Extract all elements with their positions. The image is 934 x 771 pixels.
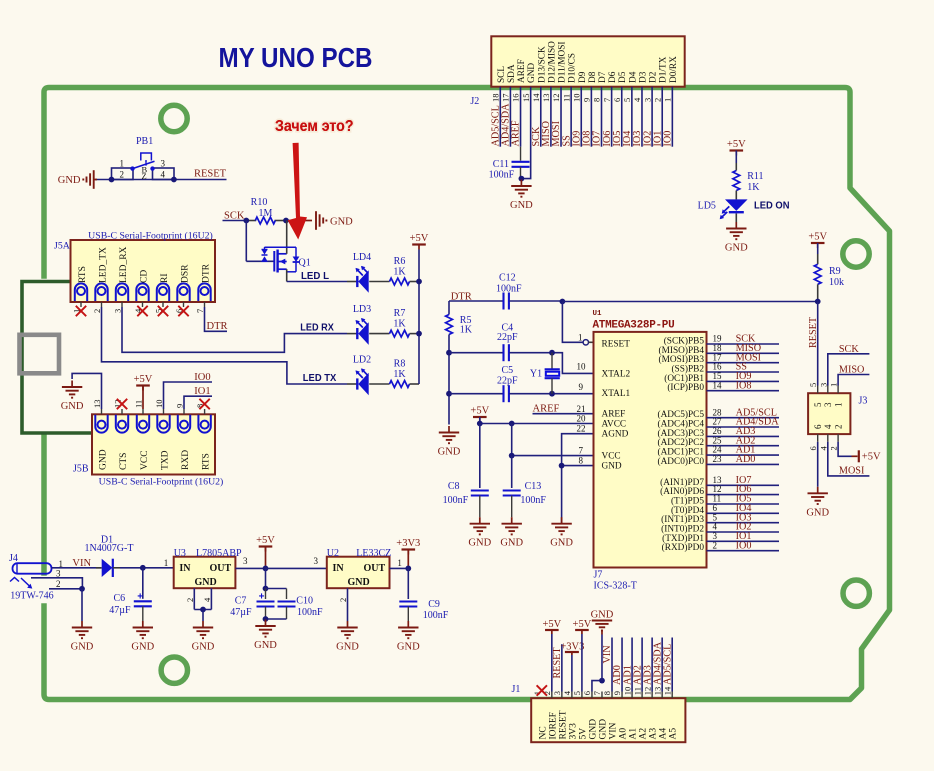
svg-text:GND: GND xyxy=(588,719,598,740)
svg-text:+5V: +5V xyxy=(256,535,275,546)
svg-text:GND: GND xyxy=(591,610,614,621)
svg-text:7: 7 xyxy=(579,446,584,456)
svg-text:D5: D5 xyxy=(618,71,628,83)
svg-text:100nF: 100nF xyxy=(520,495,546,506)
svg-text:CTS: CTS xyxy=(119,453,129,470)
svg-text:C11: C11 xyxy=(493,159,509,170)
svg-text:18: 18 xyxy=(491,94,501,103)
svg-text:10: 10 xyxy=(577,362,587,372)
svg-text:19TW-746: 19TW-746 xyxy=(10,591,53,602)
svg-text:1K: 1K xyxy=(393,319,406,330)
svg-text:C13: C13 xyxy=(525,481,542,492)
svg-text:U2: U2 xyxy=(327,548,339,559)
svg-text:9: 9 xyxy=(612,691,622,695)
svg-text:3V3: 3V3 xyxy=(568,723,578,740)
svg-text:RESET: RESET xyxy=(558,710,568,739)
svg-text:10: 10 xyxy=(571,94,581,103)
svg-text:3: 3 xyxy=(823,402,833,407)
svg-text:MY UNO PCB: MY UNO PCB xyxy=(219,42,373,73)
svg-text:23: 23 xyxy=(713,454,723,464)
svg-text:GND: GND xyxy=(131,642,154,653)
svg-text:13: 13 xyxy=(92,400,102,409)
svg-text:MISO: MISO xyxy=(839,364,864,375)
svg-text:GND: GND xyxy=(602,462,622,472)
svg-text:U3: U3 xyxy=(174,548,186,559)
svg-text:1M: 1M xyxy=(259,208,273,219)
svg-text:D9: D9 xyxy=(578,71,588,83)
svg-text:+5V: +5V xyxy=(573,619,592,630)
svg-text:2: 2 xyxy=(120,170,125,180)
svg-text:Зачем это?: Зачем это? xyxy=(275,118,354,135)
svg-text:47µF: 47µF xyxy=(109,605,131,616)
svg-text:1N4007G-T: 1N4007G-T xyxy=(85,543,134,554)
svg-text:VIN: VIN xyxy=(602,645,613,664)
svg-text:D2: D2 xyxy=(649,71,659,83)
svg-text:100nF: 100nF xyxy=(489,170,515,181)
svg-text:+: + xyxy=(137,591,143,602)
svg-text:C8: C8 xyxy=(448,481,460,492)
svg-text:(AIN0)PD6: (AIN0)PD6 xyxy=(660,486,704,497)
svg-text:IO0: IO0 xyxy=(736,540,752,551)
svg-text:12: 12 xyxy=(551,94,561,103)
svg-text:GND: GND xyxy=(397,642,420,653)
svg-text:1: 1 xyxy=(397,558,402,568)
svg-text:LED_RX: LED_RX xyxy=(119,246,129,283)
svg-text:22: 22 xyxy=(577,424,586,434)
svg-text:RESET: RESET xyxy=(808,316,819,348)
svg-text:SCL: SCL xyxy=(497,66,507,83)
svg-text:IOREF: IOREF xyxy=(548,712,558,739)
svg-text:C9: C9 xyxy=(428,599,440,610)
svg-text:NC: NC xyxy=(538,726,548,739)
svg-text:+5V: +5V xyxy=(410,233,429,244)
svg-text:3: 3 xyxy=(243,556,248,566)
svg-text:LED_TX: LED_TX xyxy=(98,247,108,283)
svg-text:J5B: J5B xyxy=(73,464,89,475)
svg-text:(SS)PB2: (SS)PB2 xyxy=(671,364,704,375)
svg-text:14: 14 xyxy=(662,686,672,695)
svg-text:+3V3: +3V3 xyxy=(396,538,420,549)
svg-text:+5V: +5V xyxy=(862,452,881,463)
svg-text:21: 21 xyxy=(577,404,586,414)
svg-text:D11/MOSI: D11/MOSI xyxy=(558,42,568,84)
svg-text:AVCC: AVCC xyxy=(602,420,627,430)
svg-text:3: 3 xyxy=(818,383,828,387)
svg-text:+5V: +5V xyxy=(470,406,489,417)
svg-text:22pF: 22pF xyxy=(497,332,518,343)
svg-text:R6: R6 xyxy=(394,256,406,267)
svg-text:(T0)PD4: (T0)PD4 xyxy=(671,505,704,516)
svg-text:10: 10 xyxy=(622,687,632,696)
svg-text:(MISO)PB4: (MISO)PB4 xyxy=(659,345,705,356)
svg-text:3: 3 xyxy=(552,691,562,695)
svg-text:GND: GND xyxy=(58,175,81,186)
svg-text:J2: J2 xyxy=(470,96,479,107)
svg-text:2: 2 xyxy=(833,425,843,430)
svg-text:2: 2 xyxy=(56,579,61,589)
svg-text:A4: A4 xyxy=(659,728,669,740)
svg-text:+5V: +5V xyxy=(542,619,561,630)
svg-text:4: 4 xyxy=(632,97,642,102)
svg-text:IO0: IO0 xyxy=(194,372,210,383)
svg-text:(TXD)PD1: (TXD)PD1 xyxy=(662,533,704,544)
svg-text:ATMEGA328P-PU: ATMEGA328P-PU xyxy=(593,320,675,332)
svg-text:14: 14 xyxy=(713,380,723,390)
svg-text:100nF: 100nF xyxy=(443,495,469,506)
svg-text:1: 1 xyxy=(164,558,169,568)
svg-text:16: 16 xyxy=(511,94,521,103)
svg-text:8: 8 xyxy=(592,98,602,102)
svg-text:2: 2 xyxy=(92,309,102,313)
svg-text:J5A: J5A xyxy=(54,241,70,252)
svg-text:GND: GND xyxy=(806,507,829,518)
svg-text:D1/TX: D1/TX xyxy=(659,56,669,83)
svg-text:D8: D8 xyxy=(588,71,598,83)
svg-text:Y1: Y1 xyxy=(530,368,542,379)
svg-text:47µF: 47µF xyxy=(230,607,252,618)
svg-text:7: 7 xyxy=(592,691,602,695)
svg-text:D13/SCK: D13/SCK xyxy=(537,46,547,83)
svg-text:+5V: +5V xyxy=(808,232,827,243)
svg-text:2: 2 xyxy=(338,598,348,602)
svg-text:4: 4 xyxy=(562,690,572,695)
svg-text:+5V: +5V xyxy=(134,374,153,385)
svg-text:VCC: VCC xyxy=(602,452,621,462)
svg-text:ICS-328-T: ICS-328-T xyxy=(594,581,637,592)
svg-text:RI: RI xyxy=(160,274,170,284)
svg-text:9: 9 xyxy=(582,98,592,102)
svg-text:GND: GND xyxy=(725,243,748,254)
svg-text:GND: GND xyxy=(598,719,608,740)
svg-text:17: 17 xyxy=(501,94,511,103)
svg-text:U1: U1 xyxy=(593,310,603,318)
svg-text:J4: J4 xyxy=(9,553,18,564)
svg-text:1: 1 xyxy=(663,98,673,102)
svg-text:2: 2 xyxy=(829,446,839,450)
svg-text:R11: R11 xyxy=(747,171,763,182)
svg-text:1: 1 xyxy=(833,403,843,408)
svg-text:DTR: DTR xyxy=(201,263,211,283)
svg-text:D10/CS: D10/CS xyxy=(568,53,578,83)
svg-text:1K: 1K xyxy=(393,369,406,380)
svg-text:XTAL1: XTAL1 xyxy=(602,389,631,399)
svg-text:OUT: OUT xyxy=(210,563,232,574)
svg-text:14: 14 xyxy=(531,93,541,102)
svg-text:GND: GND xyxy=(500,538,523,549)
svg-text:GND: GND xyxy=(192,642,215,653)
svg-text:10k: 10k xyxy=(829,277,844,288)
svg-text:A1: A1 xyxy=(629,728,639,740)
svg-text:7: 7 xyxy=(602,98,612,102)
svg-text:GND: GND xyxy=(71,642,94,653)
svg-text:VCC: VCC xyxy=(140,450,150,470)
svg-text:5: 5 xyxy=(572,691,582,695)
svg-text:RTS: RTS xyxy=(201,453,211,470)
svg-text:9: 9 xyxy=(579,382,584,392)
svg-text:22pF: 22pF xyxy=(497,376,518,387)
svg-text:5: 5 xyxy=(808,383,818,387)
svg-text:IO1: IO1 xyxy=(194,386,210,397)
svg-text:1: 1 xyxy=(578,333,583,343)
svg-text:C10: C10 xyxy=(296,596,313,607)
svg-text:D0/RX: D0/RX xyxy=(669,56,679,83)
svg-text:3: 3 xyxy=(161,159,166,169)
svg-text:4: 4 xyxy=(161,170,166,180)
svg-text:7: 7 xyxy=(195,309,205,313)
svg-text:D7: D7 xyxy=(598,71,608,83)
svg-text:AREF: AREF xyxy=(517,59,527,83)
svg-text:J3: J3 xyxy=(859,396,868,407)
svg-text:J1: J1 xyxy=(512,684,521,695)
svg-text:(ADC2)PC2: (ADC2)PC2 xyxy=(658,437,705,448)
svg-text:GND: GND xyxy=(98,449,108,470)
svg-text:100nF: 100nF xyxy=(423,610,449,621)
svg-text:GND: GND xyxy=(550,538,573,549)
svg-text:C6: C6 xyxy=(114,593,126,604)
svg-text:LE33CZ: LE33CZ xyxy=(356,548,391,559)
svg-text:A3: A3 xyxy=(649,728,659,740)
svg-text:3: 3 xyxy=(113,309,123,313)
svg-text:LD3: LD3 xyxy=(353,304,371,315)
svg-text:GND: GND xyxy=(438,447,461,458)
svg-text:CD: CD xyxy=(139,270,149,283)
svg-text:RXD: RXD xyxy=(181,450,191,470)
svg-text:LED TX: LED TX xyxy=(303,372,337,384)
svg-text:11: 11 xyxy=(134,400,144,408)
svg-text:L7805ABP: L7805ABP xyxy=(196,548,242,559)
svg-text:4: 4 xyxy=(818,446,828,451)
svg-text:RESET: RESET xyxy=(194,169,227,180)
svg-text:VIN: VIN xyxy=(609,722,619,739)
svg-text:+: + xyxy=(259,591,265,602)
svg-text:J7: J7 xyxy=(594,570,603,581)
svg-text:20: 20 xyxy=(577,414,587,424)
svg-text:SDA: SDA xyxy=(507,64,517,83)
svg-text:(ICP)PB0: (ICP)PB0 xyxy=(667,382,704,393)
svg-text:GND: GND xyxy=(336,642,359,653)
svg-text:XTAL2: XTAL2 xyxy=(602,369,631,379)
svg-text:AREF: AREF xyxy=(533,404,560,415)
svg-text:RTS: RTS xyxy=(78,266,88,283)
svg-text:GND: GND xyxy=(254,640,277,651)
svg-text:5V: 5V xyxy=(578,728,588,740)
svg-text:Z: Z xyxy=(142,171,147,181)
svg-text:LED RX: LED RX xyxy=(300,322,334,334)
svg-text:USB-C Serial-Footprint (16U2): USB-C Serial-Footprint (16U2) xyxy=(88,231,213,242)
svg-text:8: 8 xyxy=(602,691,612,695)
svg-text:OUT: OUT xyxy=(364,563,386,574)
svg-text:D12/MISO: D12/MISO xyxy=(547,41,557,83)
svg-text:A0: A0 xyxy=(619,728,629,740)
svg-text:8: 8 xyxy=(579,456,584,466)
svg-text:IO0: IO0 xyxy=(663,131,674,147)
svg-text:100nF: 100nF xyxy=(496,284,522,295)
svg-text:PB1: PB1 xyxy=(136,136,153,147)
svg-text:+5V: +5V xyxy=(727,139,746,150)
svg-text:100nF: 100nF xyxy=(297,607,323,618)
svg-text:6: 6 xyxy=(582,691,592,695)
svg-text:LD5: LD5 xyxy=(698,201,716,212)
svg-text:10: 10 xyxy=(154,400,164,409)
svg-text:(RXD)PD0: (RXD)PD0 xyxy=(662,542,705,553)
svg-text:R8: R8 xyxy=(394,359,406,370)
svg-text:IN: IN xyxy=(179,563,191,574)
svg-text:D3: D3 xyxy=(638,71,648,83)
svg-text:9: 9 xyxy=(175,404,185,408)
svg-text:GND: GND xyxy=(510,200,533,211)
svg-text:13: 13 xyxy=(541,94,551,103)
svg-text:6: 6 xyxy=(813,424,823,429)
svg-text:RESET: RESET xyxy=(602,340,631,350)
svg-text:5: 5 xyxy=(622,98,632,102)
svg-text:13: 13 xyxy=(652,687,662,696)
svg-text:11: 11 xyxy=(632,687,642,695)
svg-text:LED L: LED L xyxy=(301,270,330,282)
svg-text:1: 1 xyxy=(120,159,125,169)
svg-text:IO8: IO8 xyxy=(736,380,752,391)
svg-text:+3V3: +3V3 xyxy=(560,641,584,652)
svg-text:A2: A2 xyxy=(639,728,649,740)
svg-text:LED ON: LED ON xyxy=(754,200,790,212)
svg-text:6: 6 xyxy=(612,98,622,102)
svg-text:2: 2 xyxy=(713,540,718,550)
svg-text:1: 1 xyxy=(829,383,839,387)
svg-text:AD5/SCL: AD5/SCL xyxy=(662,644,673,685)
svg-text:(ADC4)PC4: (ADC4)PC4 xyxy=(658,419,705,430)
svg-text:C12: C12 xyxy=(499,273,516,284)
svg-text:C5: C5 xyxy=(502,365,514,376)
svg-text:GND: GND xyxy=(61,401,84,412)
svg-text:IN: IN xyxy=(333,563,345,574)
svg-text:12: 12 xyxy=(642,687,652,696)
svg-text:R7: R7 xyxy=(394,308,406,319)
svg-text:3: 3 xyxy=(314,556,319,566)
svg-text:AD0: AD0 xyxy=(736,454,756,465)
svg-text:AGND: AGND xyxy=(602,430,629,440)
svg-text:11: 11 xyxy=(561,94,571,102)
svg-text:1K: 1K xyxy=(393,267,406,278)
svg-text:LD4: LD4 xyxy=(353,252,371,263)
svg-text:R10: R10 xyxy=(251,197,268,208)
svg-text:5: 5 xyxy=(813,402,823,407)
svg-text:3: 3 xyxy=(642,98,652,102)
svg-text:15: 15 xyxy=(521,94,531,103)
svg-text:1K: 1K xyxy=(747,182,760,193)
svg-text:R9: R9 xyxy=(829,266,841,277)
svg-text:D6: D6 xyxy=(608,71,618,83)
svg-text:2: 2 xyxy=(185,598,195,602)
svg-text:A5: A5 xyxy=(669,728,679,740)
svg-text:LD2: LD2 xyxy=(353,355,371,366)
svg-text:2: 2 xyxy=(652,98,662,102)
svg-text:AREF: AREF xyxy=(511,120,522,146)
svg-text:MOSI: MOSI xyxy=(839,466,865,477)
svg-text:Q1: Q1 xyxy=(299,258,311,269)
svg-text:GND: GND xyxy=(527,63,537,83)
svg-text:GND: GND xyxy=(330,217,353,228)
svg-text:DSR: DSR xyxy=(180,264,190,283)
svg-text:D4: D4 xyxy=(628,71,638,83)
svg-text:(ADC0)PC0: (ADC0)PC0 xyxy=(658,456,705,467)
svg-text:1K: 1K xyxy=(460,325,473,336)
svg-text:USB-C Serial-Footprint (16U2): USB-C Serial-Footprint (16U2) xyxy=(99,477,224,488)
svg-text:6: 6 xyxy=(808,446,818,450)
svg-text:GND: GND xyxy=(195,577,217,588)
svg-text:GND: GND xyxy=(348,577,370,588)
svg-text:C7: C7 xyxy=(235,596,247,607)
svg-text:SCK: SCK xyxy=(839,344,859,355)
svg-text:TXD: TXD xyxy=(160,450,170,470)
svg-text:AREF: AREF xyxy=(602,410,626,420)
svg-text:4: 4 xyxy=(823,424,833,429)
svg-text:4: 4 xyxy=(202,597,212,602)
svg-text:GND: GND xyxy=(468,538,491,549)
